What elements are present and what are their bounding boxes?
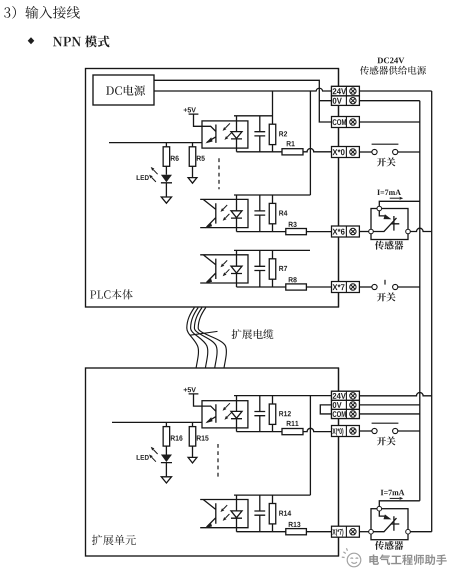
current arrow X*6 [390,197,404,200]
wire internal 24V drop to row 2 [309,91,311,195]
LED light arrows row1 [149,167,158,182]
sensor X(*7) terminals [369,506,411,534]
wire internal 24V drop to exp row 2 [309,396,311,496]
wire row3 anode rail [234,249,310,251]
sensor X(*7) transistor [373,511,399,532]
resistor R6 [163,143,170,175]
wire X(*7) to sensor [359,531,368,533]
wire R11 to X(*0) terminal with hop [303,428,332,431]
capacitor row2 [254,195,265,232]
terminal 0V [332,96,360,106]
expansion unit box [86,368,339,556]
terminal 24V [332,86,360,96]
+5V supply row1 [184,107,202,126]
sensor box X*6 [371,209,408,240]
resistor R2 [269,91,276,152]
wire row1 cathode [237,151,283,153]
label 扩展电缆 [232,329,274,339]
opto-coupler exp-row1 light arrows [223,403,232,420]
terminal block 24V/0V/COM outline (expansion) [332,391,360,418]
switch at X*0 [359,144,419,154]
label 开关 X*0 [377,157,396,166]
bullet diamond [28,37,35,44]
wire exp row1 anode rail to 24V terminal [234,395,332,397]
label R11 [287,421,299,426]
capacitor row3 [254,250,265,287]
terminal X*7 [332,282,360,293]
opto LED diode row2 [231,195,242,232]
opto-coupler row2 phototransistor [200,199,248,228]
resistor R16 [163,422,170,454]
resistor R7 [269,250,276,287]
ground row1 R5 [188,178,197,184]
label R4 [279,211,287,216]
label R5 [197,156,205,161]
jumper 0V-COM (expansion) [320,405,331,414]
opto LED diode exp-row2 [231,495,242,532]
sensor box X(*7) [371,509,408,540]
opto LED diode row1 [231,116,242,152]
wire exp COM terminal to 0V bus [359,413,419,415]
wire 24V terminal to right bus [359,90,431,92]
resistor R12 [269,396,276,432]
label 传感器供给电源 [360,66,426,75]
sensor X*6 terminals [369,206,411,234]
label 开关 X*7 [377,292,396,301]
terminal COM (expansion) [332,409,360,418]
heading NPN 模式 [53,36,110,48]
ground exp-row1 R15 [188,457,197,463]
wire expansion box right edge [338,368,340,556]
wire row2 anode rail [234,194,310,196]
label R2 [279,131,287,136]
LED light arrows exp-row1 [149,447,158,462]
ellipsis dashed line rows [218,158,220,189]
opto LED diode row3 [231,250,242,287]
label R3 [289,222,297,227]
terminal 0V (expansion) [332,400,360,409]
label PLC本体 [90,289,133,299]
resistor R8 [286,284,307,290]
label 传感器 X(*7) [375,541,403,550]
wire R8 to X*7 terminal [306,286,331,288]
watermark icon [342,548,361,567]
wire R3 to X*6 terminal [306,231,331,233]
wire sensor emitter to 24V bus with hop [410,228,431,231]
opto LED diode exp-row1 [231,396,242,432]
label R1 [287,141,295,146]
opto-coupler row1 phototransistor box [202,121,248,148]
wire X*6 to sensor [359,231,368,233]
wire right 0V bus [419,101,421,501]
resistor R5 [189,143,196,178]
wire exp row2 cathode [237,531,286,533]
terminal X*6 [332,226,360,237]
label R12 [279,411,291,416]
terminal X(*0) [332,426,360,437]
LED indicator row1 [161,175,172,197]
ellipsis dashed line exp rows [217,444,219,478]
resistor R13 [286,529,307,535]
label LED row1 [137,175,149,180]
resistor R14 [269,495,276,532]
sensor X*6 transistor [373,211,399,232]
label I=7mA X(*7) [381,490,405,495]
wire DC 24V rail to 24V terminal [154,88,332,91]
label R13 [289,522,301,527]
terminal X(*7) [332,526,360,537]
DC power supply box DC电源 [93,75,154,105]
resistor R4 [269,195,276,232]
capacitor exp-row2 [254,495,265,532]
wire exp sensor collector to 0V bus [379,501,420,507]
switch at X(*0) [359,423,419,433]
wire sensor collector to 0V bus [379,201,420,206]
terminal COM [332,117,360,128]
label DC24V [377,58,404,64]
wire exp sensor emitter to 24V bus [410,531,431,533]
wire exp 0V terminal to 0V bus [359,404,419,406]
wire PLC box right edge [338,69,340,308]
wire exp row2 anode rail [234,494,310,496]
terminal 24V (expansion) [332,391,360,400]
PLC main unit box [86,69,339,308]
opto-coupler exp-row2 phototransistor [200,500,248,529]
wire DC 0V feed to 0V and COM terminals [154,80,332,122]
current arrow X(*7) [390,497,404,500]
label I=7mA X*6 [377,190,401,195]
expansion cable strands [187,308,227,369]
watermark text 电气工程师助手 [369,554,446,565]
wire row3 cathode [237,286,286,288]
wire right 24V bus [431,91,433,532]
label 扩展单元 [92,535,136,545]
label R14 [279,511,291,516]
wire COM terminal to 0V bus [359,121,419,123]
wire exp row1 cathode [237,431,283,433]
label R7 [279,266,287,271]
wire row2 cathode [237,231,286,233]
label 开关 X(*0) [377,436,396,445]
label R8 [289,277,297,282]
resistor R1 [282,149,303,155]
label DC电源 [106,85,145,96]
label R15 [197,436,209,441]
resistor R3 [286,229,307,235]
opto-coupler exp-row1 phototransistor box [202,401,248,428]
opto-coupler row1 light arrows [223,123,232,139]
label LED exp-row1 [137,455,149,460]
label 传感器 X*6 [375,241,403,250]
wire row1 anode rail [234,115,273,117]
wire R13 to X(*7) terminal [306,531,331,533]
wire exp 24V terminal to 24V bus with hop [359,392,431,395]
wire R1 to X*0 terminal with hop [303,149,332,152]
terminal block 24V/0V outline [332,86,360,105]
opto-coupler row2 light arrows [221,205,230,221]
+5V supply exp-row1 [184,387,202,406]
opto-coupler row3 light arrows [221,260,230,276]
terminal X*0 [332,147,360,158]
LED indicator exp-row1 [161,455,172,477]
ground exp-row1 LED chain [161,477,171,483]
opto-coupler exp-row2 light arrows [221,505,230,521]
wire 0V terminal to right bus [359,100,419,102]
switch at X*7 [359,280,419,290]
label R6 [171,156,179,161]
resistor R11 [282,429,303,435]
heading 3）输入接线 [4,6,80,19]
capacitor exp-row1 [254,396,265,432]
label R16 [171,435,183,440]
opto-coupler row3 phototransistor [200,255,248,284]
wire exp-row1 input common [112,421,202,423]
ground row1 LED chain [161,197,171,203]
resistor R15 [189,422,196,457]
wire row1 input common [109,142,202,144]
capacitor row1 [254,116,265,152]
